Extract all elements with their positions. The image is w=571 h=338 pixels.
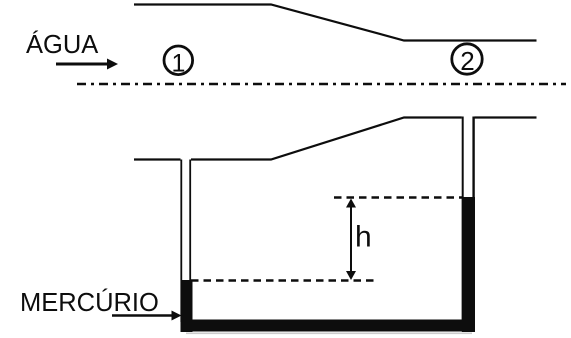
mercury bottom bar (U-tube base) [181,320,476,332]
dimension arrow h (double headed) [346,199,356,281]
mercury column in left tube [181,280,193,332]
dashed mercury level line at tube 2 [334,196,462,199]
svg-text:1: 1 [172,50,186,78]
pipe upper wall (venturi top contour) [134,5,537,41]
scan shadow under bottom bar [186,333,472,335]
right manometer tube, right wall [472,117,474,323]
right manometer tube, left wall [462,117,464,323]
station marker 1 [164,46,193,78]
dashed mercury level line at tube 1 [191,279,374,282]
flow arrow (water inlet) [56,59,118,70]
pipe lower wall, middle segment (venturi ramp) [191,118,462,160]
left manometer tube, right wall [189,160,191,323]
station marker 2 [452,44,482,76]
pipe lower wall, right segment [475,116,537,118]
svg-text:2: 2 [460,46,474,76]
centerline (dash-dot pipe axis) [77,83,566,86]
svg-text:ÁGUA: ÁGUA [26,30,98,59]
svg-text:MERCÚRIO: MERCÚRIO [20,288,159,317]
pipe lower wall, left segment [134,158,181,160]
left manometer tube, left wall [180,160,182,323]
mercury column in right tube [462,197,475,332]
svg-text:h: h [355,221,372,254]
mercury pointer arrow [112,311,182,321]
